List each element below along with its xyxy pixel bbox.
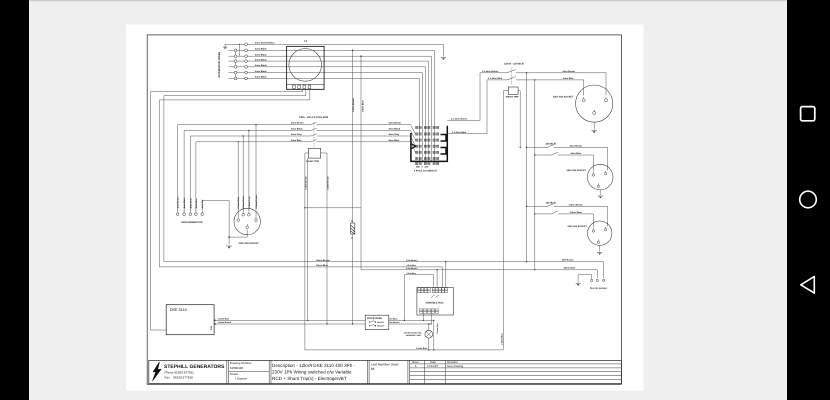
svg-text:2.5mm Blue: 2.5mm Blue	[237, 196, 240, 209]
svg-text:DSE: DSE	[210, 325, 213, 330]
svg-text:1.5m Blue: 1.5m Blue	[407, 264, 417, 267]
svg-text:4mm Brown: 4mm Brown	[291, 122, 304, 125]
svg-text:4mm Black: 4mm Black	[255, 64, 267, 67]
svg-text:4mm Blue: 4mm Blue	[571, 152, 582, 155]
svg-text:MAIN GENERATOR: MAIN GENERATOR	[182, 221, 203, 224]
svg-text:32A C/O SOCKET: 32A C/O SOCKET	[590, 287, 608, 290]
svg-text:400 0 230: 400 0 230	[416, 165, 429, 168]
svg-text:4mm Blue: 4mm Blue	[563, 77, 574, 80]
svg-text:1.5mm Blue: 1.5mm Blue	[416, 347, 428, 350]
svg-text:4mm Black: 4mm Black	[291, 128, 303, 131]
svg-text:1.5m Brown: 1.5m Brown	[388, 321, 400, 324]
svg-text:LT: LT	[304, 40, 307, 43]
svg-text:New drawing: New drawing	[447, 364, 464, 368]
svg-text:4mm Blue: 4mm Blue	[291, 139, 302, 142]
svg-text:4mm Black: 4mm Black	[389, 128, 401, 131]
svg-text:Drawn: Drawn	[230, 372, 239, 376]
svg-text:2 x 4mm Blue: 2 x 4mm Blue	[452, 131, 467, 134]
svg-text:ALTERNATOR WIRES: ALTERNATOR WIRES	[218, 51, 221, 77]
svg-text:230V 16A SOCKET: 230V 16A SOCKET	[568, 225, 588, 228]
svg-text:240V 16A SOCKET: 240V 16A SOCKET	[567, 169, 587, 172]
svg-text:10m Brown: 10m Brown	[562, 259, 574, 262]
svg-text:6 POLE C/O SWITCH: 6 POLE C/O SWITCH	[414, 169, 437, 172]
svg-text:1.5mm Blue: 1.5mm Blue	[570, 211, 583, 214]
svg-text:Drawing Number: Drawing Number	[230, 361, 252, 365]
svg-text:27/11/23: 27/11/23	[427, 364, 438, 368]
svg-text:1.5mm Brown: 1.5mm Brown	[218, 321, 232, 324]
svg-text:4mm Blue: 4mm Blue	[195, 198, 198, 209]
svg-text:10mm Blue: 10mm Blue	[564, 267, 576, 270]
svg-text:2.5mm Grey: 2.5mm Grey	[248, 196, 251, 209]
svg-text:4mm Brown: 4mm Brown	[389, 122, 402, 125]
svg-text:SHUNT TRIP: SHUNT TRIP	[506, 96, 520, 99]
svg-text:12kVA - 32A MCB: 12kVA - 32A MCB	[504, 62, 524, 65]
svg-text:4mm Black: 4mm Black	[255, 58, 267, 61]
svg-text:4mm Grey: 4mm Grey	[389, 133, 400, 136]
svg-text:100A - 100 A 4 POLE MCB: 100A - 100 A 4 POLE MCB	[299, 116, 329, 119]
svg-text:4mm Brown: 4mm Brown	[570, 145, 583, 148]
svg-text:1.5mm Brown: 1.5mm Brown	[304, 176, 307, 190]
svg-text:RCD BYPASS: RCD BYPASS	[367, 317, 382, 320]
svg-text:Last Number Used: Last Number Used	[371, 362, 399, 366]
svg-text:4mm Grey: 4mm Grey	[291, 133, 302, 136]
svg-text:S1: S1	[351, 236, 353, 239]
svg-text:WATER DETECTED: WATER DETECTED	[404, 332, 422, 335]
svg-text:32A MCB: 32A MCB	[546, 143, 556, 146]
svg-text:1.5mm Blue: 1.5mm Blue	[500, 332, 503, 345]
svg-text:4mm Brown: 4mm Brown	[177, 196, 180, 209]
svg-text:WARNING LAMP: WARNING LAMP	[406, 334, 422, 337]
svg-text:4mm Brown: 4mm Brown	[563, 70, 576, 73]
svg-text:S2: S2	[351, 220, 353, 223]
svg-text:10mm Blue: 10mm Blue	[361, 100, 364, 112]
svg-text:10mm Brown: 10mm Brown	[352, 98, 355, 112]
svg-text:4mm G/Y: 4mm G/Y	[201, 199, 204, 209]
svg-text:16A MCB: 16A MCB	[546, 202, 556, 205]
svg-text:A: A	[415, 364, 417, 368]
svg-text:VARIABLE RCD: VARIABLE RCD	[426, 301, 444, 304]
svg-text:Phone 01933 677911: Phone 01933 677911	[165, 371, 195, 375]
svg-text:4mm Grey: 4mm Grey	[189, 197, 192, 208]
svg-text:ON-OFF: ON-OFF	[377, 321, 385, 324]
svg-text:ON-OFF: ON-OFF	[377, 325, 385, 328]
svg-text:1.5mm Blue: 1.5mm Blue	[436, 323, 439, 334]
svg-text:4mm Black: 4mm Black	[255, 48, 267, 51]
svg-text:2.5mm Brown: 2.5mm Brown	[327, 176, 330, 190]
svg-text:DSE 3110: DSE 3110	[170, 308, 187, 312]
svg-text:1.5m Blue: 1.5m Blue	[388, 318, 398, 321]
svg-text:2.5mm Black: 2.5mm Black	[242, 195, 245, 209]
svg-text:STEPHILL GENERATORS: STEPHILL GENERATORS	[164, 364, 225, 370]
svg-text:2.5mm Brown: 2.5mm Brown	[255, 194, 258, 208]
svg-text:2 x 4mm Blue: 2 x 4mm Blue	[488, 77, 503, 80]
svg-text:1.5m Brown: 1.5m Brown	[406, 267, 418, 270]
svg-text:J Dawson: J Dawson	[235, 377, 248, 381]
svg-text:SW30119: SW30119	[230, 366, 244, 370]
svg-text:1.5m Brown: 1.5m Brown	[406, 259, 418, 262]
svg-text:1.5mm Blue: 1.5mm Blue	[218, 318, 231, 321]
svg-text:415V 32A SOCKET: 415V 32A SOCKET	[238, 242, 259, 245]
svg-text:4mm Black: 4mm Black	[183, 197, 186, 209]
svg-text:230V 32A SOCKET: 230V 32A SOCKET	[553, 96, 574, 99]
svg-text:10mm Blue: 10mm Blue	[316, 264, 328, 267]
svg-text:4mm Green/Yellow: 4mm Green/Yellow	[255, 42, 275, 45]
svg-text:88: 88	[371, 367, 375, 371]
svg-text:Fax 01933 677916: Fax 01933 677916	[165, 376, 194, 380]
svg-text:Description - 12kVA DSE 3110 4: Description - 12kVA DSE 3110 400 3Ph -	[272, 363, 356, 368]
svg-text:SHUNT TRIP: SHUNT TRIP	[306, 160, 320, 163]
svg-text:230V 1Ph Wiring switched c/w V: 230V 1Ph Wiring switched c/w Variable	[272, 369, 352, 374]
svg-text:RCD + Shunt Trip(s) - Electrog: RCD + Shunt Trip(s) - Electrogen/BT	[272, 376, 347, 381]
svg-text:10mm Brown: 10mm Brown	[316, 259, 330, 262]
svg-text:4mm Black: 4mm Black	[255, 76, 267, 79]
svg-text:2 x 4mm Brown: 2 x 4mm Brown	[482, 70, 499, 73]
svg-text:4mm Black: 4mm Black	[255, 70, 267, 73]
svg-text:2 x 4mm Brown: 2 x 4mm Brown	[451, 118, 468, 121]
svg-text:4mm Black: 4mm Black	[255, 53, 267, 56]
svg-text:4mm Blue: 4mm Blue	[389, 139, 400, 142]
svg-text:1.5mm Brown: 1.5mm Brown	[569, 204, 584, 207]
svg-text:1.5m Blue: 1.5m Blue	[407, 272, 417, 275]
